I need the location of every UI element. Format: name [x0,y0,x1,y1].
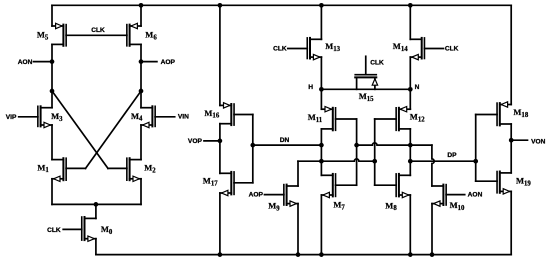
transistor M0 [82,217,96,241]
wire M7 drain [320,161,322,175]
wire M5 source / AON column [51,44,53,107]
svg-text:CLK: CLK [91,27,105,34]
node DP-b [408,143,413,148]
wire M13 drain to VDD [320,5,322,39]
wire DN net [253,144,322,146]
node VDD-M13 [319,3,324,8]
transistor M17 [220,172,234,196]
wire M19 gate [476,180,497,182]
wire M16 drain to VDD [219,5,221,105]
node DN-c [319,159,324,164]
wire tail node [52,203,141,205]
wire M11 drain [320,89,322,109]
node AOP [139,59,144,64]
node X2 [139,89,144,94]
wire AON lead [34,61,53,63]
node N [408,87,413,92]
wire M14 drain to VDD [409,5,411,39]
transistor M16 [220,103,234,125]
node gnd-M10 [430,252,435,257]
wire VIN lead [155,116,175,118]
node gnd-M8 [408,252,413,257]
node VON [509,138,514,143]
wire DP branch with hop over DN column [357,143,432,145]
wire M0 drain [95,204,97,218]
svg-text:CLK: CLK [47,227,61,234]
wire M6 drain to VDD [140,5,142,26]
transistor M11 [321,107,335,131]
wire M16-M17 gate tie [252,115,254,183]
transistor M8 [396,174,410,198]
wire M17 gate [234,182,253,184]
wire M15 gate stub CLK [365,56,367,74]
wire DP net right [410,160,475,162]
transistor M19 [497,172,511,195]
wire M0 source to ground [95,239,97,255]
wire M16 source / VOP column [219,124,221,174]
wire M11 gate to DP column [336,118,357,120]
wire DP drop to M10 drain with hop [432,145,434,186]
wire CLK gate M5-M6 [66,34,127,36]
svg-text:VIN: VIN [178,114,189,121]
node gnd-M17 [218,252,223,257]
wire M3 source to M1 drain [51,125,53,160]
node X1 [50,89,55,94]
wire cross-couple AON to M2 gate [52,91,108,168]
wire M8 gate [375,184,396,186]
wire CLK lead M14 [424,48,443,50]
wire AOP lead M9 gate [265,194,284,196]
wire M2 source down [140,179,142,205]
node DN-d [372,159,377,164]
wire M11 source down [320,129,322,161]
transistor M3 [38,106,52,127]
svg-text:DN: DN [280,137,290,144]
wire M12 source down [409,129,411,161]
wire AON lead M10 gate [446,194,465,196]
svg-text:H: H [308,84,313,91]
wire M10 source to ground [431,204,433,255]
wire M8 drain [409,161,411,175]
svg-text:VON: VON [531,138,546,145]
svg-text:AOP: AOP [161,59,176,66]
wire AOP lead [141,61,157,63]
wire M16 gate [234,114,253,116]
wire M19 source to ground [510,191,512,254]
svg-text:VOP: VOP [188,138,203,145]
transistor M15 [355,75,377,90]
wire CLK lead M13 [288,48,307,50]
transistor M9 [284,185,298,207]
wire VIP lead [19,116,38,118]
wire M18 source / VON column [510,124,512,173]
transistor M10 [432,185,446,207]
wire VDD top rail [52,4,511,6]
node tail [94,202,99,207]
wire cross-couple AOP to M1 gate [86,91,142,168]
wire M6 source / AOP column [140,44,142,107]
transistor M4 [141,106,155,127]
node VDD-M6 [139,3,144,8]
svg-text:AOP: AOP [249,191,264,198]
svg-text:N: N [415,84,420,91]
transistor M14 [410,38,424,60]
svg-text:CLK: CLK [273,46,287,53]
wire M4 source to M2 drain [140,125,142,160]
wire M7 gate [336,184,357,186]
transistor M5 [52,23,66,46]
wire VON lead [511,139,527,141]
wire M12 gate to DN column [375,118,396,120]
transistor M13 [307,38,321,60]
wire M7 source to ground [320,195,322,255]
node DN-b [319,143,324,148]
svg-text:DP: DP [447,152,457,159]
wire M8 source to ground [409,195,411,255]
wire node H to node N [321,88,410,90]
wire VOP lead [204,140,220,142]
svg-text:CLK: CLK [445,46,459,53]
wire DN branch with hop over DP column [298,159,375,161]
svg-text:AON: AON [18,59,33,66]
node gnd-M9 [296,252,301,257]
transistor M1 [52,158,66,181]
node DP-d [473,159,478,164]
wire M17 source to ground [219,193,221,255]
transistor M7 [321,174,335,198]
node H [319,87,324,92]
node AON [50,59,55,64]
wire M1 source down [51,179,53,205]
wire M18 gate to DP [476,114,497,116]
node gnd-M7 [319,252,324,257]
node DP-c [408,159,413,164]
wire M9 source to ground [297,204,299,255]
node DP-a [354,143,359,148]
wire ground bottom rail [96,254,511,256]
wire M5 drain to VDD [51,5,53,26]
node VDD-M16 [218,3,223,8]
transistor M12 [396,107,410,131]
wire M18 drain to VDD [510,5,512,104]
wire M13 source to node H [320,57,322,89]
svg-text:AON: AON [468,192,483,199]
wire CLK lead M0 [63,228,82,230]
wire M14 source to node N [409,57,411,89]
svg-text:CLK: CLK [370,60,384,67]
wire M9 drain up [297,161,299,186]
node VOP [218,139,223,144]
transistor M2 [127,158,141,181]
svg-text:VIP: VIP [6,114,17,121]
transistor M18 [497,102,511,126]
transistor M6 [127,23,141,46]
node DN-a [250,143,255,148]
wire M12 drain [409,89,411,109]
node VDD-M14 [408,3,413,8]
